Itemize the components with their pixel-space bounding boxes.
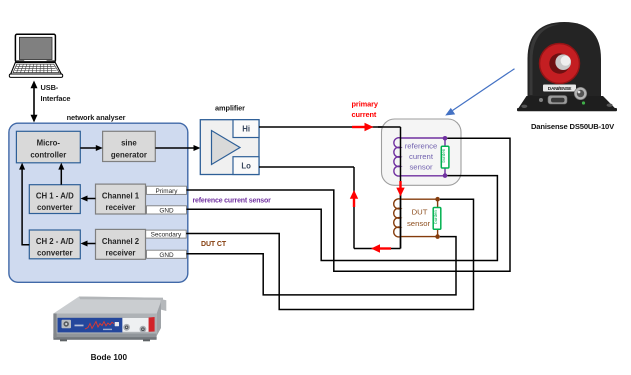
svg-text:sine: sine	[121, 139, 137, 148]
reference sensor top node	[443, 136, 448, 141]
wire Hi output to primary loop	[259, 126, 401, 128]
USB interface double arrow	[31, 81, 38, 123]
arrow sine generator to amplifier	[155, 145, 200, 151]
svg-text:receiver: receiver	[106, 203, 136, 212]
primary current label	[352, 99, 379, 119]
micro-controller block	[16, 131, 80, 163]
blue callout arrow from Danisense photo to sensor enclosure	[445, 69, 514, 116]
svg-text:burden: burden	[441, 148, 446, 162]
wire Primary to reference sensor top node	[187, 138, 511, 271]
reference current sensor winding	[394, 138, 445, 176]
wire Secondary to DUT sensor top node	[186, 199, 473, 309]
wire primary bottom return	[354, 248, 401, 250]
svg-text:current: current	[409, 152, 434, 161]
red arrow primary current down (between sensors)	[396, 181, 404, 196]
DUT sensor bottom node	[435, 234, 440, 239]
sine generator block	[103, 131, 156, 161]
CH1 A/D converter block	[29, 185, 80, 214]
network analyser enclosure	[9, 123, 188, 282]
wire primary return vertical	[353, 167, 355, 249]
Bode 100 instrument photo	[53, 297, 166, 342]
svg-text:current: current	[352, 110, 377, 119]
wire GND1 to reference sensor bottom node	[187, 176, 498, 261]
arrow Channel2 receiver to CH2 converter	[81, 241, 96, 247]
svg-text:DUT CT: DUT CT	[201, 241, 227, 248]
re-draw primary wire inside enclosure	[378, 126, 401, 128]
svg-text:sensor: sensor	[407, 219, 431, 228]
red arrow primary current right	[352, 123, 374, 131]
arrow CH1 converter to micro-controller	[58, 163, 64, 185]
Primary terminal box	[147, 186, 187, 195]
svg-text:amplifier: amplifier	[215, 104, 245, 113]
Channel 1 receiver block	[96, 184, 146, 214]
svg-text:Secondary: Secondary	[151, 232, 182, 239]
reference current sensor text	[405, 141, 437, 171]
svg-text:sensor: sensor	[409, 162, 433, 171]
svg-text:Danisense DS50UB-10V: Danisense DS50UB-10V	[531, 122, 615, 131]
svg-text:Micro-: Micro-	[37, 139, 61, 148]
Secondary terminal box	[146, 230, 187, 239]
svg-text:Primary: Primary	[155, 188, 178, 195]
wire primary vertical through sensors	[400, 127, 402, 249]
svg-text:receiver: receiver	[106, 249, 136, 258]
Danisense current transducer photo	[517, 22, 617, 111]
svg-text:generator: generator	[111, 150, 147, 159]
svg-text:converter: converter	[37, 249, 73, 258]
wire GND2 to DUT sensor bottom node	[187, 237, 457, 295]
svg-text:Bode 100: Bode 100	[91, 353, 128, 362]
arrow CH2 converter to micro-controller	[19, 163, 29, 245]
amplifier U1	[200, 120, 259, 175]
CH2 A/D converter block	[29, 230, 80, 259]
DUT sensor winding	[394, 199, 438, 237]
rounded sensor enclosure	[382, 119, 462, 185]
red arrow primary current left (bottom)	[371, 244, 391, 252]
svg-text:reference current sensor: reference current sensor	[193, 198, 272, 205]
svg-text:network analyser: network analyser	[67, 113, 126, 122]
GND terminal box (channel 1)	[147, 206, 187, 215]
svg-text:converter: converter	[37, 203, 73, 212]
arrow micro-controller to sine generator	[80, 145, 103, 151]
Channel 2 receiver block	[96, 229, 146, 259]
svg-text:Channel 1: Channel 1	[102, 192, 140, 201]
svg-text:GND: GND	[159, 207, 174, 214]
svg-text:Channel 2: Channel 2	[102, 237, 140, 246]
reference sensor bottom node	[443, 173, 448, 178]
red arrow primary current up (return)	[350, 190, 358, 207]
svg-text:Lo: Lo	[241, 162, 251, 171]
svg-text:USB-: USB-	[41, 83, 59, 92]
svg-text:controller: controller	[30, 150, 66, 159]
svg-text:GND: GND	[159, 252, 174, 259]
laptop icon (PC)	[9, 34, 62, 77]
svg-text:CH 1 - A/D: CH 1 - A/D	[36, 192, 74, 201]
svg-text:CH 2 - A/D: CH 2 - A/D	[36, 237, 74, 246]
DUT sensor top node	[435, 197, 440, 202]
USB-Interface label	[41, 83, 71, 103]
GND terminal box (channel 2)	[147, 250, 187, 259]
wire return to Lo	[259, 166, 354, 168]
primary wire vertical (over windings)	[400, 127, 402, 249]
svg-text:reference: reference	[405, 141, 437, 150]
burden resistor (reference sensor)	[441, 146, 449, 168]
DUT sensor text	[407, 207, 431, 228]
svg-text:burden: burden	[433, 210, 438, 224]
arrow Channel1 receiver to CH1 converter	[81, 196, 96, 202]
svg-text:DUT: DUT	[412, 207, 428, 216]
svg-text:DANI/ENSE: DANI/ENSE	[548, 86, 573, 92]
svg-text:Interface: Interface	[41, 94, 71, 103]
svg-text:primary: primary	[352, 99, 379, 108]
svg-text:Hi: Hi	[242, 125, 250, 134]
burden resistor (DUT sensor)	[433, 208, 441, 230]
